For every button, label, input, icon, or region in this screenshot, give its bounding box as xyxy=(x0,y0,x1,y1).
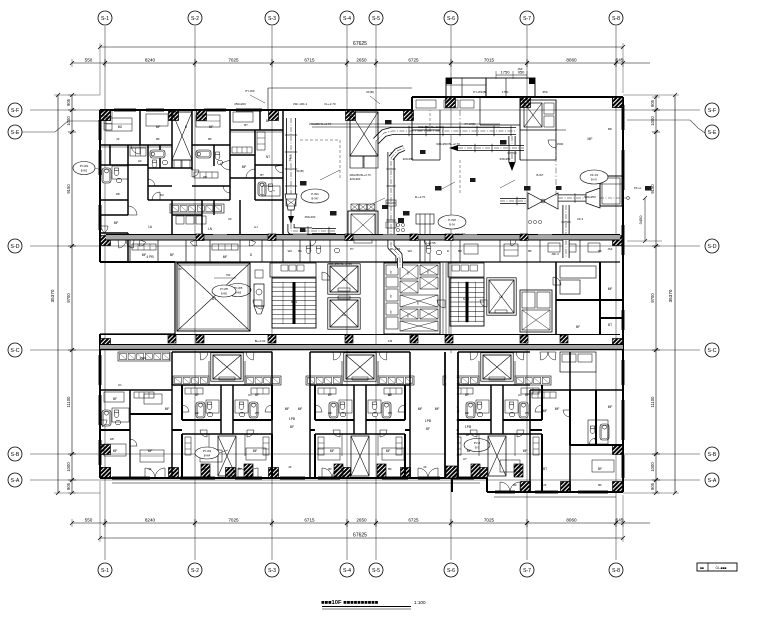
svg-text:S-2: S-2 xyxy=(191,568,199,574)
equipment boxes left of right stair xyxy=(520,290,552,332)
dimension line top segments xyxy=(72,62,650,64)
fan coil unit left of core xyxy=(348,211,378,239)
grid line S-3 xyxy=(271,26,273,560)
top right core upper block xyxy=(520,100,556,130)
grid line S-2 xyxy=(194,26,196,560)
svg-text:11100: 11100 xyxy=(650,396,655,408)
lower cluster inner doors at 360 xyxy=(315,405,322,412)
grid bubble S-D left xyxy=(8,239,22,253)
grid line S-7 xyxy=(526,26,528,560)
dimension 550 top xyxy=(70,61,74,65)
tick outside wall xyxy=(622,197,630,199)
mid-left open room xyxy=(309,352,311,478)
rooftop rooms above top edge near S-6 xyxy=(446,78,486,97)
svg-text:MF: MF xyxy=(142,253,147,257)
svg-text:3000: 3000 xyxy=(140,356,147,360)
svg-text:2F: 2F xyxy=(116,137,120,141)
svg-text:S-6: S-6 xyxy=(447,16,455,22)
svg-text:DT: DT xyxy=(212,297,216,301)
fan bowtie symbol xyxy=(543,193,558,209)
vertical pipes right of shafts xyxy=(442,263,444,334)
extension lines bottom corners xyxy=(99,481,101,542)
grid bubble S-6 top xyxy=(444,11,458,25)
grid bubble S-B left xyxy=(8,447,22,461)
svg-text:BF: BF xyxy=(426,427,430,431)
extension lines top corners xyxy=(99,43,101,95)
svg-text:MF: MF xyxy=(608,287,613,291)
dimension 1000 right xyxy=(654,108,658,112)
svg-text:2F: 2F xyxy=(423,465,427,469)
lower cluster bedroom partitions at 227 xyxy=(208,434,210,456)
svg-text:S-C: S-C xyxy=(11,348,20,354)
svg-text:S-4: S-4 xyxy=(343,16,351,22)
grid line S-4 xyxy=(346,26,348,560)
callout ellipse XF-01 xyxy=(580,170,608,184)
left cluster kitchen independent xyxy=(118,352,170,361)
upper-left wing partition walls xyxy=(100,144,172,146)
columns on left exterior wall xyxy=(101,111,111,121)
svg-text:250x160: 250x160 xyxy=(305,215,316,219)
svg-text:9700: 9700 xyxy=(66,293,71,303)
svg-text:67625: 67625 xyxy=(353,41,367,47)
grid bubble S-2 bottom xyxy=(188,563,202,577)
svg-text:S-6: S-6 xyxy=(447,568,455,574)
lower cluster closets at 227 xyxy=(185,388,203,394)
extra vav black boxes xyxy=(420,150,426,154)
svg-text:MF: MF xyxy=(285,407,290,411)
svg-text:905: 905 xyxy=(650,482,655,490)
dimension 1750 950 near S-7 xyxy=(496,74,527,76)
dimension 2650 bottom xyxy=(345,521,349,525)
water tank next to shaft xyxy=(254,284,264,306)
dimension 645 top xyxy=(614,61,618,65)
grid line S-6 xyxy=(450,26,452,560)
svg-text:7015: 7015 xyxy=(484,58,495,63)
grid line S-D xyxy=(30,245,700,247)
upper corridor door openings xyxy=(213,234,227,236)
dimension 8060 top xyxy=(525,61,529,65)
svg-text:1500: 1500 xyxy=(557,142,564,146)
plenum room partitions xyxy=(411,110,413,160)
grid bubble S-7 bottom xyxy=(520,563,534,577)
svg-text:BF: BF xyxy=(170,253,174,257)
lower cluster entry door clouds at 360 xyxy=(333,352,341,360)
dimension 905 right xyxy=(654,478,658,482)
upper corridor band xyxy=(106,235,620,240)
svg-text:M2: M2 xyxy=(118,125,123,129)
svg-text:2650: 2650 xyxy=(356,518,367,523)
svg-text:PY-WF(B): PY-WF(B) xyxy=(473,90,486,94)
lower cluster walls at 227 xyxy=(172,351,272,353)
svg-text:905: 905 xyxy=(66,98,71,106)
svg-text:950: 950 xyxy=(542,90,547,94)
svg-text:JSF: JSF xyxy=(608,247,613,251)
svg-text:BF: BF xyxy=(598,467,602,471)
svg-text:MF: MF xyxy=(242,165,247,169)
grid bubble S-7 top xyxy=(520,11,534,25)
svg-text:PY-W5: PY-W5 xyxy=(220,287,229,291)
svg-text:JSF-3: JSF-3 xyxy=(551,252,559,256)
svg-text:1PB: 1PB xyxy=(289,417,296,421)
grid bubble S-E left xyxy=(8,125,22,139)
svg-text:PY-W2: PY-W2 xyxy=(80,164,89,168)
svg-text:K1: K1 xyxy=(118,383,122,387)
svg-text:WF: WF xyxy=(465,411,470,415)
lower cluster elevator at 497 xyxy=(481,353,513,381)
legend box bottom right xyxy=(697,563,737,571)
bathroom upper-left 1 xyxy=(102,168,111,183)
svg-text:HJ: HJ xyxy=(254,225,258,229)
svg-text:550: 550 xyxy=(85,58,93,63)
svg-text:6715: 6715 xyxy=(304,518,315,523)
grid line S-1 xyxy=(104,26,106,560)
svg-text:1PB: 1PB xyxy=(425,419,432,423)
svg-text:8240: 8240 xyxy=(145,58,156,63)
svg-text:1750: 1750 xyxy=(501,70,511,75)
dimension 6715 top xyxy=(270,61,274,65)
riser circles group 1 xyxy=(396,223,399,226)
svg-text:D: D xyxy=(447,249,449,253)
bathroom upper-left 4 xyxy=(258,182,266,196)
lower cluster inner doors at 497 xyxy=(452,405,459,412)
lower cluster party shaft at 227 xyxy=(218,436,236,476)
svg-text:WF: WF xyxy=(388,411,393,415)
left wing lower room fixtures xyxy=(132,244,156,250)
svg-text:8060: 8060 xyxy=(566,518,577,523)
grid bubble S-6 bottom xyxy=(444,563,458,577)
riser circles group 2 xyxy=(528,220,531,223)
svg-text:■■: ■■ xyxy=(700,566,704,570)
svg-text:250x200: 250x200 xyxy=(234,102,246,106)
svg-text:9150: 9150 xyxy=(66,184,71,194)
svg-text:PY: PY xyxy=(407,271,410,275)
svg-text:PF-xx: PF-xx xyxy=(634,186,642,190)
grid bubble S-B right xyxy=(705,447,719,461)
kitchen counter upper-left xyxy=(170,204,224,213)
svg-text:645: 645 xyxy=(616,58,624,63)
elevator 2 xyxy=(328,298,360,329)
svg-text:1000: 1000 xyxy=(650,116,655,126)
svg-text:BT: BT xyxy=(260,173,264,177)
lower cluster kitchens at 227 xyxy=(173,376,209,385)
columns on right exterior wall xyxy=(613,98,623,108)
callout in big shaft xyxy=(212,285,236,297)
svg-text:MF: MF xyxy=(543,409,548,413)
dimension 7025 bottom xyxy=(193,521,197,525)
svg-text:PY-W(B): PY-W(B) xyxy=(465,122,476,126)
lower cluster elevator at 227 xyxy=(211,353,243,381)
svg-text:P-W1: P-W1 xyxy=(311,192,319,196)
svg-text:WF: WF xyxy=(525,411,530,415)
svg-text:S-2: S-2 xyxy=(191,16,199,22)
svg-text:BF: BF xyxy=(328,393,332,397)
svg-text:BF: BF xyxy=(156,137,160,141)
svg-text:JSF-10F-1: JSF-10F-1 xyxy=(293,102,308,106)
svg-text:BT: BT xyxy=(608,323,612,327)
extension lines right xyxy=(623,94,679,96)
svg-text:S-A: S-A xyxy=(708,478,717,484)
dimension line right segments xyxy=(655,95,657,493)
closets upper-left xyxy=(130,148,146,156)
core bottom wall xyxy=(100,334,620,336)
lower band cluster walls (party walls) xyxy=(171,352,173,478)
leader lines small xyxy=(320,170,340,180)
svg-text:BF: BF xyxy=(466,433,470,437)
svg-text:FL+2.70: FL+2.70 xyxy=(324,102,335,106)
exhaust plenum box at right wall xyxy=(600,176,622,206)
svg-text:XF(B): XF(B) xyxy=(366,90,374,94)
svg-text:320x200: 320x200 xyxy=(350,177,361,181)
svg-text:S-B: S-B xyxy=(708,452,717,458)
small boxes corridor rooms xyxy=(548,243,560,252)
lower cluster kitchens at 497 xyxy=(443,376,479,385)
main vertical duct below runs xyxy=(391,152,399,263)
svg-text:MF: MF xyxy=(114,221,119,225)
right edge windows xyxy=(621,105,623,130)
svg-text:645: 645 xyxy=(616,518,624,523)
svg-text:250x200 FL+2.70: 250x200 FL+2.70 xyxy=(309,122,331,126)
dimension 1000 left xyxy=(70,452,74,456)
svg-text:S-E: S-E xyxy=(708,130,717,136)
duct riser shaft S-4 xyxy=(350,112,378,156)
funnel transition to wall box xyxy=(586,188,600,208)
grid bubble S-8 top xyxy=(609,11,623,25)
svg-text:S-4: S-4 xyxy=(343,568,351,574)
main corridor walls xyxy=(100,334,620,336)
dimension 905 left xyxy=(70,93,74,97)
svg-text:WC: WC xyxy=(288,249,293,253)
gap hatch column bottom xyxy=(446,466,457,478)
svg-text:MF: MF xyxy=(608,127,612,131)
svg-text:K1: K1 xyxy=(518,393,522,397)
leader arrow top left xyxy=(250,95,265,103)
dimension 550 bottom xyxy=(70,521,74,525)
lower cluster bathrooms at 360 xyxy=(329,402,338,418)
svg-text:S-F: S-F xyxy=(708,108,716,114)
dimension 7025 bottom xyxy=(449,521,453,525)
svg-text:SF-1: SF-1 xyxy=(288,155,292,162)
svg-text:B-H7: B-H7 xyxy=(591,178,597,182)
svg-text:FL+2.70: FL+2.70 xyxy=(415,195,426,199)
dimension 9150 left xyxy=(70,130,74,134)
svg-text:B-W4: B-W4 xyxy=(204,454,211,458)
grid bubble S-1 bottom xyxy=(98,563,112,577)
dimension 11100 left xyxy=(70,348,74,352)
svg-text:7025: 7025 xyxy=(484,518,495,523)
dimension line left overall 35370 xyxy=(57,95,59,493)
svg-text:750: 750 xyxy=(226,273,231,277)
lower cluster elevator at 360 xyxy=(344,353,376,381)
upper wing lower rooms partitions xyxy=(282,240,284,262)
svg-text:BF: BF xyxy=(238,467,242,471)
core top wall xyxy=(175,261,620,263)
svg-text:P-W8: P-W8 xyxy=(448,218,456,222)
grid line S-8 xyxy=(615,26,617,560)
duct into core xyxy=(397,258,403,268)
dimension 1000 right xyxy=(654,452,658,456)
dimension line left segments xyxy=(71,95,73,493)
svg-text:35370: 35370 xyxy=(50,289,55,302)
grid bubble S-F right xyxy=(705,103,719,117)
svg-text:WF: WF xyxy=(328,411,333,415)
svg-text:S-B: S-B xyxy=(11,452,20,458)
svg-text:HT: HT xyxy=(463,457,467,461)
svg-text:4 PB: 4 PB xyxy=(146,255,154,259)
dimension 905 left xyxy=(70,478,74,482)
lower cluster closets at 497 xyxy=(455,388,473,394)
svg-text:SF(B): SF(B) xyxy=(296,169,303,173)
small vav boxes in plenum xyxy=(300,181,307,186)
svg-text:1M: 1M xyxy=(388,339,393,343)
rooms between upper corridor and core xyxy=(299,240,301,262)
door arcs corridor rooms xyxy=(310,240,316,246)
svg-text:WF: WF xyxy=(195,411,200,415)
svg-text:8060: 8060 xyxy=(566,58,577,63)
svg-text:BF: BF xyxy=(290,425,294,429)
dimension 8240 bottom xyxy=(103,521,107,525)
lower cluster party shaft at 360 xyxy=(351,436,369,476)
svg-text:GL-■■■: GL-■■■ xyxy=(715,566,726,570)
svg-text:BL+0.00: BL+0.00 xyxy=(255,339,266,343)
dashed leader polylines plenum xyxy=(300,139,340,141)
vertical pipe riser cluster right of shaft xyxy=(419,214,421,262)
svg-text:MF: MF xyxy=(435,407,440,411)
svg-text:S-3: S-3 xyxy=(268,568,276,574)
svg-text:BF: BF xyxy=(203,467,207,471)
svg-text:MF: MF xyxy=(588,137,593,141)
svg-text:WF: WF xyxy=(255,411,260,415)
mid gap rooms xyxy=(409,352,411,478)
svg-text:S-8: S-8 xyxy=(612,568,620,574)
svg-text:MF: MF xyxy=(467,449,472,453)
svg-text:S-5: S-5 xyxy=(372,16,380,22)
svg-text:D2: D2 xyxy=(160,193,164,197)
vertical dash-dot lines plenum xyxy=(459,110,461,128)
dimension 7025 top xyxy=(193,61,197,65)
svg-text:BT: BT xyxy=(244,123,248,127)
dimension line top overall 67625 xyxy=(100,46,623,48)
svg-text:WC: WC xyxy=(408,249,413,253)
svg-text:MF: MF xyxy=(156,125,161,129)
right core rooms walls xyxy=(555,262,557,334)
callout ellipse lower-left unit xyxy=(195,447,219,459)
svg-text:PY: PY xyxy=(390,310,393,314)
dimension 9700 right xyxy=(654,244,658,248)
dimension 3450 right xyxy=(644,198,646,241)
grid bubble S-2 top xyxy=(188,11,202,25)
lower cluster closets at 360 xyxy=(318,388,336,394)
columns on bottom exterior wall xyxy=(101,468,111,478)
svg-text:MF: MF xyxy=(298,407,303,411)
svg-text:B-W7: B-W7 xyxy=(537,173,544,177)
svg-text:PY: PY xyxy=(390,294,393,298)
lower cluster bathrooms at 497 xyxy=(466,402,475,418)
grid bubble S-F left xyxy=(8,103,22,117)
svg-text:MF: MF xyxy=(608,405,613,409)
grid bubble S-1 top xyxy=(98,11,112,25)
svg-text:XF: XF xyxy=(178,267,182,271)
dimension 8240 top xyxy=(103,61,107,65)
grid bubble S-3 bottom xyxy=(265,563,279,577)
grid bubble S-5 bottom xyxy=(369,563,383,577)
duct from AHU down right side xyxy=(563,240,570,258)
dimension line bottom segments xyxy=(72,522,650,524)
svg-text:S-5: S-5 xyxy=(372,568,380,574)
grid bubble S-3 top xyxy=(265,11,279,25)
svg-text:L1: L1 xyxy=(342,278,346,282)
lower cluster walls at 360 xyxy=(310,351,410,353)
svg-text:■■■10F ■■■■■■■■■■: ■■■10F ■■■■■■■■■■ xyxy=(321,600,379,606)
svg-text:BF: BF xyxy=(255,393,259,397)
dimension 8060 bottom xyxy=(525,521,529,525)
dimension 9150 right xyxy=(654,130,658,134)
left edge windows xyxy=(98,120,100,140)
svg-text:630x250: 630x250 xyxy=(584,195,596,199)
return duct run with left arrow xyxy=(458,145,524,151)
dimension 9700 left xyxy=(70,244,74,248)
lower cluster kitchens at 360 xyxy=(306,376,342,385)
grid bubble S-D right xyxy=(705,239,719,253)
svg-text:BF: BF xyxy=(208,137,212,141)
main corridor gray band xyxy=(100,345,623,350)
svg-text:S-F: S-F xyxy=(11,108,19,114)
svg-text:WF: WF xyxy=(110,437,115,441)
svg-text:MF: MF xyxy=(165,407,170,411)
svg-text:JSF: JSF xyxy=(517,67,523,71)
elbow down at right end of upper run xyxy=(509,136,516,162)
svg-text:MF: MF xyxy=(148,449,153,453)
svg-text:BF: BF xyxy=(266,119,270,123)
svg-text:6715: 6715 xyxy=(304,58,315,63)
svg-text:WF: WF xyxy=(116,192,121,196)
lower cluster walls at 497 xyxy=(458,351,530,353)
building exterior wall outline xyxy=(100,109,412,111)
svg-text:S-7: S-7 xyxy=(523,568,531,574)
svg-text:B1: B1 xyxy=(298,249,302,253)
svg-text:BT: BT xyxy=(543,467,547,471)
right section door clouds xyxy=(540,352,548,360)
grid bubble S-C left xyxy=(8,343,22,357)
lower cluster entry door clouds at 497 xyxy=(470,352,478,360)
bathroom upper-left 3 xyxy=(196,150,211,158)
lower cluster party shaft at 497 xyxy=(488,436,506,476)
svg-text:PY: PY xyxy=(390,270,393,274)
dimension line right overall 35370 xyxy=(674,95,676,493)
svg-text:XF-01: XF-01 xyxy=(590,173,599,177)
svg-text:BF: BF xyxy=(113,397,117,401)
large vent shaft with X core-left xyxy=(177,263,250,331)
svg-text:905: 905 xyxy=(650,99,655,107)
svg-text:7025: 7025 xyxy=(228,518,239,523)
svg-text:PY-WF: PY-WF xyxy=(245,89,255,93)
grid bubble S-A right xyxy=(705,473,719,487)
svg-text:S-7: S-7 xyxy=(523,16,531,22)
small boxes on vertical duct xyxy=(386,200,396,206)
left wing lower rooms xyxy=(209,240,211,262)
svg-text:BF: BF xyxy=(576,325,580,329)
shaft with X upper-left xyxy=(172,112,192,160)
svg-text:3450: 3450 xyxy=(638,215,643,225)
svg-text:6725: 6725 xyxy=(408,518,419,523)
svg-text:6725: 6725 xyxy=(408,58,419,63)
grid line S-5 xyxy=(375,26,377,560)
svg-text:B-347: B-347 xyxy=(312,197,319,201)
callout ellipse lower xyxy=(464,439,490,452)
callout ellipse PY-W5 xyxy=(225,284,251,297)
grid bubble S-E right xyxy=(705,125,719,139)
lower cluster bathrooms at 227 xyxy=(196,402,205,418)
svg-text:MF: MF xyxy=(330,449,335,453)
